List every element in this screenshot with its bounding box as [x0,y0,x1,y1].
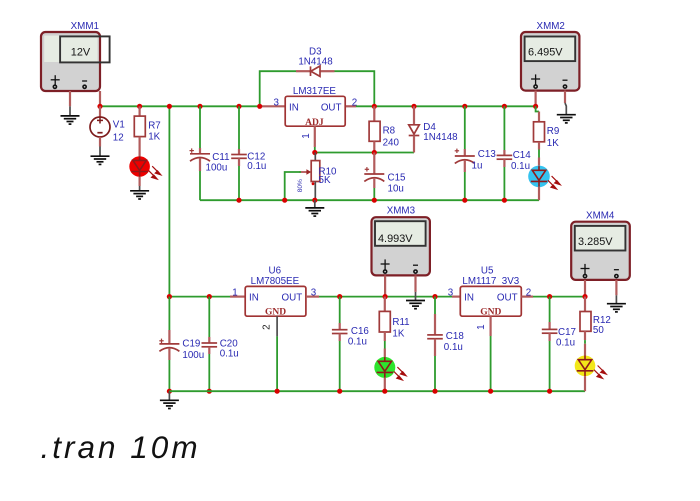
node junction D3 left [257,104,262,109]
capacitor C20 [202,297,239,392]
ground at XMM3 [406,292,425,309]
svg-text:LM7805EE: LM7805EE [251,276,300,287]
svg-text:XMM3: XMM3 [387,206,416,217]
svg-text:XMM2: XMM2 [537,21,565,32]
C11 plus mark [191,148,193,152]
svg-text:IN: IN [249,293,259,304]
LED2 blue arrows [548,176,560,189]
node junction C17 top [547,294,552,299]
node junction C15 bottom [372,198,377,203]
XMM4 plus terminal [584,264,586,275]
LED3 green arrows [394,367,406,380]
U5 box [460,286,521,316]
svg-text:R7: R7 [148,121,161,132]
node junction XMM4 plus / R12 [582,294,587,299]
node junction wiper bottom [282,198,287,203]
node junction R10 bottom [312,198,317,203]
XMM1 minus terminal [82,80,87,82]
svg-text:4.993V: 4.993V [378,233,413,245]
ground at C19 [160,391,179,408]
wire lead U5 pin2 [521,296,533,298]
LED4 yellow [575,356,607,379]
svg-text:5K: 5K [319,175,331,186]
resistor R12 [580,297,611,356]
wire vertical drop to lower section [168,106,170,296]
ground at V1 [91,147,110,165]
svg-text:OUT: OUT [497,293,518,304]
svg-text:XMM1: XMM1 [71,21,99,32]
XMM2 minus terminal [563,79,568,81]
voltage source V1 [90,106,125,146]
node junction C18 bottom [432,389,437,394]
V1 circle [90,117,110,137]
svg-text:.tran 10m: .tran 10m [41,429,201,465]
LED1 red arrows [149,166,161,179]
node junction R8 bottom [372,150,377,155]
svg-text:C16: C16 [351,326,370,337]
ground at XMM2 [557,103,576,123]
C13 plus mark [456,149,458,153]
wire top rail left (net IN) [100,105,260,107]
V1 plus sign [99,117,101,124]
wire XMM2 minus down [564,91,566,103]
svg-text:LM1117 3V3: LM1117 3V3 [462,276,519,287]
wire LED1 to ground [139,177,141,186]
wire lead U5 pin3 [452,296,460,298]
svg-text:XMM4: XMM4 [586,211,615,222]
svg-text:2: 2 [262,324,273,329]
wire lead LM317 pin3 [260,105,286,107]
svg-text:1: 1 [301,133,312,138]
C15 plus mark [366,167,368,171]
node junction C11 top [197,104,202,109]
node junction U5 gnd bottom [488,389,493,394]
svg-text:12V: 12V [71,47,91,59]
V1 top lead [99,106,101,117]
svg-text:C18: C18 [446,331,465,342]
svg-text:OUT: OUT [282,293,303,304]
wire XMM1 plus to ground [69,91,71,106]
wire ADJ net horizontal [315,152,414,154]
XMM1 value box [60,36,110,62]
svg-text:3: 3 [273,97,279,108]
wire LED2 to bottom rail [538,187,540,201]
regulator U6 LM7805EE [232,265,317,329]
resistor R11 [379,297,409,358]
svg-text:3.285V: 3.285V [578,236,613,248]
wire XMM4 minus down [615,280,617,295]
svg-text:1: 1 [232,288,237,299]
wire XMM2 plus down [534,91,536,107]
resistor R7 [134,106,160,156]
U6 box [245,286,306,316]
wire XMM4 plus down [584,280,586,297]
wire U6 GND pin down [276,316,278,336]
ground at XMM4 [607,295,626,312]
LED1 red [129,156,161,179]
wire LED4 to rail [584,376,586,391]
capacitor C14 [497,106,532,200]
diode D3 [296,47,335,77]
ground at XMM1 [61,106,80,124]
svg-text:OUT: OUT [321,102,342,113]
XMM1 body [41,32,100,91]
XMM4 screen [575,226,626,251]
svg-text:100u: 100u [182,350,204,361]
node junction C14 top [502,104,507,109]
wire lead LM317 pin2 [345,105,356,107]
R10 wiper arrow [299,171,307,173]
svg-text:0.1u: 0.1u [511,161,530,172]
XMM2 body [521,32,579,91]
wire U5 GND pin down [490,316,492,336]
XMM1 plus terminal [54,75,56,85]
resistor R8 [369,106,399,152]
XMM4 minus terminal [614,269,619,271]
svg-text:100u: 100u [206,162,228,173]
XMM2 plus terminal [535,74,537,85]
capacitor C13 [455,106,497,200]
svg-text:12: 12 [113,133,124,144]
wire ADJ pin down [314,126,316,147]
node junction C14 bottom [502,198,507,203]
svg-text:1u: 1u [472,160,483,171]
node junction vertical drop [167,104,172,109]
node junction C17 bottom [547,389,552,394]
svg-text:U5: U5 [481,265,494,276]
wire lead U6 pin1 [230,296,245,298]
capacitor C18 [427,297,464,392]
multimeter XMM2 [521,21,579,91]
XMM3 plus terminal [384,259,386,270]
C19 plus mark [161,339,163,343]
wire top section bottom rail [200,199,539,201]
svg-text:2: 2 [352,97,357,108]
wire U6 out rail [319,296,452,298]
svg-text:10u: 10u [388,183,404,194]
node junction C12 top [236,104,241,109]
svg-text:0.1u: 0.1u [348,337,367,348]
multimeter XMM1 [41,21,110,91]
wire bottom section top rail [169,296,230,298]
node junction C19 bottom [167,389,172,394]
svg-text:IN: IN [289,102,299,113]
node junction C13 bottom [462,198,467,203]
capacitor C12 [231,106,266,200]
svg-text:LM317EE: LM317EE [293,86,336,97]
node junction C19 top [167,294,172,299]
node junction C12 bottom [236,198,241,203]
op-amp regulator U4 LM317EE [273,86,357,139]
wire D3 right vertical [335,71,375,106]
svg-text:C19: C19 [182,338,200,349]
svg-text:U6: U6 [269,265,282,276]
node junction C16 top [337,294,342,299]
svg-text:6.495V: 6.495V [528,47,563,59]
wire top rail right (net OUT of LM317) [356,105,536,107]
ground at LED1 [130,186,149,199]
wire lead U6 pin3 [306,296,319,298]
XMM4 body [571,222,630,280]
svg-text:V1: V1 [113,120,125,131]
svg-text:0.1u: 0.1u [444,342,463,353]
node junction C16 bottom [337,389,342,394]
capacitor C17 [542,297,576,392]
wire XMM1 minus down [99,91,101,106]
node junction XMM3 plus / R11 [383,294,388,299]
svg-text:50: 50 [593,325,604,336]
LM317 box [285,96,345,126]
capacitor C16 [332,297,370,392]
svg-text:C13: C13 [478,149,497,160]
node junction C18 top [432,294,437,299]
svg-text:R8: R8 [383,126,396,137]
node junction C20 bottom [207,389,212,394]
wire U5 out rail [533,296,585,298]
XMM3 minus terminal [413,264,418,266]
node junction D4 top [411,104,416,109]
diode D4 [409,106,458,152]
svg-text:GND: GND [480,307,501,317]
regulator U5 LM1117 3V3 [448,265,531,329]
node junction U6 gnd bottom [275,389,280,394]
R10 wiper dot [312,182,315,185]
XMM3 body [372,217,430,275]
potentiometer R10 [297,153,337,201]
svg-text:0.1u: 0.1u [556,338,575,349]
wire jog to R9 [536,106,539,111]
svg-text:R9: R9 [547,126,560,137]
resistor R9 [534,122,560,166]
wire bottom ground rail [169,390,585,392]
ground at R10 [305,200,324,216]
XMM2 screen [525,37,576,62]
svg-text:C15: C15 [388,172,407,183]
XMM1 screen area [44,36,97,62]
node junction V1/XMM1/rail [97,104,102,109]
svg-text:240: 240 [383,138,400,149]
capacitor C19 [159,297,204,392]
LED3 green [374,357,406,380]
svg-text:80%: 80% [297,179,304,192]
capacitor C11 [190,106,230,200]
LED2 blue [528,166,560,189]
LED4 yellow arrows [594,366,606,379]
svg-text:1N4148: 1N4148 [423,132,458,143]
svg-text:IN: IN [464,293,474,304]
svg-text:1: 1 [476,324,487,329]
svg-text:3: 3 [448,288,454,299]
svg-text:1K: 1K [547,138,559,149]
svg-text:0.1u: 0.1u [247,161,266,172]
wire wiper to bottom rail [285,172,301,200]
svg-text:1K: 1K [148,132,160,143]
wire LED3 to rail [384,378,386,392]
node junction ADJ net [312,150,317,155]
svg-text:C17: C17 [558,327,576,338]
V1 minus sign [97,132,102,134]
wire XMM3 minus down [414,275,416,292]
XMM3 screen [375,221,426,246]
svg-text:GND: GND [265,307,286,317]
node junction C20 top [207,294,212,299]
svg-text:0.1u: 0.1u [220,348,239,359]
node junction C13 top [462,104,467,109]
wire XMM3 plus down [384,275,386,296]
svg-text:1N4148: 1N4148 [298,57,333,68]
svg-text:C14: C14 [513,150,532,161]
svg-text:1K: 1K [392,328,404,339]
V1 bottom lead [99,137,101,147]
wire D3 left vertical [260,71,296,106]
node junction R7 top [137,104,142,109]
multimeter XMM4 [571,211,630,280]
capacitor C15 [364,153,406,201]
node junction LED3 bottom [382,389,387,394]
multimeter XMM3 [372,206,430,276]
node junction OUT net [372,104,377,109]
svg-text:R11: R11 [392,317,409,328]
node junction XMM2 plus [533,104,538,109]
